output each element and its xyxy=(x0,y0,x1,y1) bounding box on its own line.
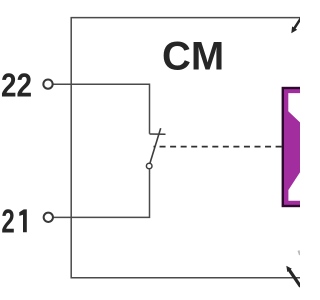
surge arrow top right: shaft xyxy=(294,18,301,28)
SPD module body xyxy=(283,88,302,206)
surge arrow top right: head xyxy=(291,26,297,33)
faint cut mark right edge xyxy=(299,251,301,256)
svg-text:2: 2 xyxy=(1,204,14,241)
terminal circle 22 xyxy=(43,79,52,88)
terminal circle 21 xyxy=(44,213,53,222)
switch fixed contact foot xyxy=(150,133,166,135)
switch pivot circle xyxy=(146,163,152,169)
earth arrow bottom right: head xyxy=(286,266,292,272)
device outline box xyxy=(71,18,300,278)
svg-text:22: 22 xyxy=(1,68,32,105)
SPD lower white arrow xyxy=(288,172,300,201)
wire terminal 21 to switch xyxy=(54,169,150,217)
switch arm xyxy=(150,128,161,163)
terminal label 21: digit 1 xyxy=(19,209,27,232)
svg-text:CM: CM xyxy=(162,35,224,79)
SPD upper white arrow xyxy=(288,93,300,123)
earth arrow bottom right: shaft xyxy=(289,269,301,286)
mechanical link dashed line xyxy=(154,146,282,148)
wire terminal 22 to switch xyxy=(53,84,150,134)
